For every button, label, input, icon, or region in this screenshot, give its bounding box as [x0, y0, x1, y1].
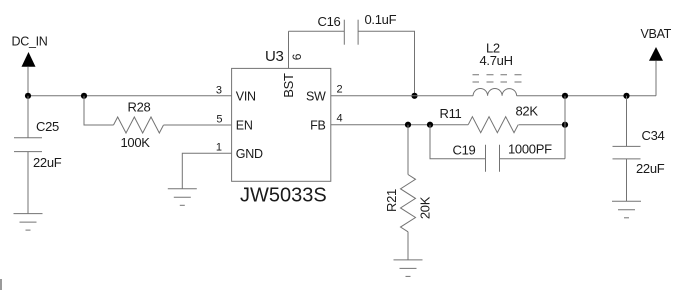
ground (C34): [612, 201, 641, 218]
wire main input rail: [28, 95, 232, 97]
svg-text:C34: C34: [642, 128, 665, 143]
svg-text:C16: C16: [318, 14, 341, 29]
wire node to output rail: [564, 96, 566, 159]
svg-text:4: 4: [337, 113, 343, 125]
node DC_IN junction: [25, 93, 31, 99]
svg-text:6: 6: [290, 53, 304, 60]
ground (R21): [394, 260, 423, 277]
node R11/C19 right junction: [562, 122, 568, 128]
svg-text:1000PF: 1000PF: [508, 141, 552, 156]
svg-text:1: 1: [216, 141, 222, 153]
IC U3 body: [232, 68, 331, 181]
wire R11 to node: [519, 124, 565, 126]
node C16/SW junction: [411, 93, 417, 99]
capacitor C16: [344, 20, 358, 45]
wire FB line: [331, 124, 468, 126]
wire C19 right: [500, 158, 566, 160]
svg-text:VBAT: VBAT: [641, 27, 672, 41]
svg-text:100K: 100K: [121, 135, 151, 150]
wire R21 top lead: [407, 125, 409, 175]
ground (U3 GND): [168, 189, 197, 206]
wire C16 to SW rail: [358, 31, 414, 96]
wire R28 branch: [84, 96, 114, 125]
svg-text:4.7uH: 4.7uH: [480, 53, 513, 68]
capacitor C34: [613, 96, 641, 202]
resistor R28: [114, 117, 164, 133]
svg-text:DC_IN: DC_IN: [12, 35, 48, 49]
svg-text:BST: BST: [281, 73, 296, 98]
svg-text:JW5033S: JW5033S: [240, 185, 327, 207]
svg-text:82K: 82K: [516, 104, 539, 119]
node output junction: [562, 93, 568, 99]
node R28 tap junction: [81, 93, 87, 99]
svg-text:R21: R21: [384, 189, 399, 212]
resistor R21: [401, 175, 416, 232]
svg-text:SW: SW: [306, 90, 326, 104]
svg-text:C25: C25: [36, 119, 59, 134]
port VBAT: [641, 27, 672, 96]
svg-text:VIN: VIN: [236, 90, 256, 104]
resistor R11: [468, 117, 518, 133]
wire L2 to VBAT node: [517, 95, 656, 97]
ground (C25): [14, 214, 43, 231]
wire BST to C16: [289, 30, 345, 32]
svg-text:GND: GND: [236, 147, 263, 161]
wire R21 bottom lead: [407, 232, 409, 260]
node C34 junction: [623, 93, 629, 99]
node R21 tap: [405, 122, 411, 128]
svg-text:20K: 20K: [418, 196, 433, 219]
svg-text:3: 3: [216, 85, 222, 97]
port DC_IN: [12, 35, 48, 96]
svg-text:5: 5: [216, 114, 222, 126]
wire U3 GND pin 1: [182, 153, 231, 189]
wire R28 to EN pin 5: [164, 124, 232, 126]
svg-text:EN: EN: [236, 118, 253, 132]
capacitor C19: [486, 145, 500, 172]
svg-text:R11: R11: [440, 106, 462, 121]
svg-text:C19: C19: [453, 142, 476, 157]
inductor L2: [473, 75, 522, 96]
capacitor C25: [14, 96, 42, 214]
wire SW rail: [331, 95, 473, 97]
svg-text:22uF: 22uF: [636, 161, 665, 176]
svg-text:2: 2: [337, 84, 343, 96]
node C19 tap: [427, 122, 433, 128]
pin BST wire (pin 6): [288, 31, 290, 68]
svg-text:R28: R28: [128, 100, 151, 115]
svg-text:0.1uF: 0.1uF: [365, 12, 397, 27]
svg-text:U3: U3: [265, 48, 284, 65]
svg-text:FB: FB: [310, 118, 325, 132]
wire C19 left branch: [430, 125, 486, 159]
svg-text:22uF: 22uF: [33, 155, 62, 170]
